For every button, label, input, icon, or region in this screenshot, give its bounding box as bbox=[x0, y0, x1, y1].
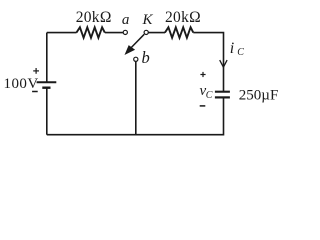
switch arm with arrowhead bbox=[125, 34, 145, 55]
source polarity minus bbox=[32, 91, 38, 93]
svg-text:K: K bbox=[141, 12, 153, 28]
wire bottom-left up to battery bbox=[46, 88, 48, 135]
resistor R2 20kΩ bbox=[165, 27, 193, 38]
capacitor voltage label v_C bbox=[200, 83, 213, 101]
svg-text:C: C bbox=[237, 47, 244, 58]
wire battery up to top-left corner bbox=[46, 33, 48, 83]
wire R2 to top-right corner bbox=[193, 33, 223, 92]
battery long positive plate bbox=[37, 81, 57, 83]
capacitor C top plate bbox=[215, 91, 230, 93]
source polarity plus bbox=[33, 68, 39, 74]
wire K to R2 bbox=[148, 32, 165, 34]
wire capacitor to bottom-right corner bbox=[47, 97, 224, 134]
current label i_C bbox=[230, 40, 244, 58]
svg-text:250µF: 250µF bbox=[239, 87, 278, 103]
node b (open terminal) bbox=[134, 57, 138, 61]
svg-text:a: a bbox=[122, 12, 130, 28]
capacitor polarity plus bbox=[200, 72, 205, 77]
battery short negative plate bbox=[42, 86, 50, 88]
svg-text:20kΩ: 20kΩ bbox=[165, 9, 201, 26]
wire top-left segment bbox=[47, 32, 77, 34]
svg-text:b: b bbox=[142, 48, 150, 67]
wire node b down to bottom rail bbox=[135, 62, 137, 135]
svg-text:100V: 100V bbox=[4, 76, 39, 92]
svg-text:i: i bbox=[230, 40, 234, 57]
switch K pivot (open circle) bbox=[144, 30, 148, 34]
svg-text:C: C bbox=[206, 90, 213, 101]
svg-text:20kΩ: 20kΩ bbox=[76, 9, 112, 26]
capacitor polarity minus bbox=[200, 105, 206, 107]
wire R1 to node a bbox=[105, 32, 124, 34]
resistor R1 20kΩ bbox=[76, 27, 104, 38]
node a (open terminal) bbox=[123, 30, 127, 34]
capacitor C bottom plate bbox=[215, 96, 230, 98]
current arrow i_C bbox=[220, 60, 227, 67]
